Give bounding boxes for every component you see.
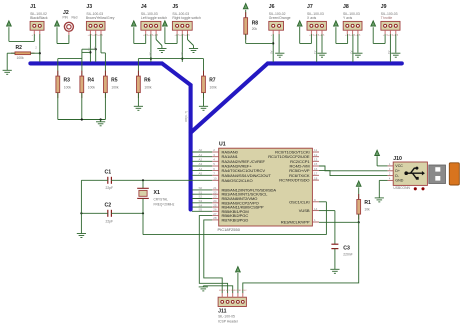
svg-text:A5: A5 xyxy=(199,172,203,176)
svg-text:22pF: 22pF xyxy=(106,220,114,224)
svg-text:28: 28 xyxy=(213,216,217,220)
svg-text:J3: J3 xyxy=(86,4,92,10)
svg-text:C1: C1 xyxy=(105,169,112,175)
svg-text:14: 14 xyxy=(314,207,318,211)
svg-text:R4: R4 xyxy=(88,77,95,83)
svg-text:100k: 100k xyxy=(88,86,96,90)
svg-text:A1: A1 xyxy=(199,153,203,157)
svg-text:R3: R3 xyxy=(64,77,71,83)
svg-text:+ -: + - xyxy=(32,34,36,37)
svg-text:Throttle: Throttle xyxy=(381,16,393,20)
svg-text:100k: 100k xyxy=(64,86,72,90)
svg-text:J6: J6 xyxy=(269,4,275,10)
svg-text:J4: J4 xyxy=(141,4,147,10)
svg-text:13: 13 xyxy=(314,158,318,162)
svg-text:16: 16 xyxy=(314,167,318,171)
svg-text:S1: S1 xyxy=(88,48,92,52)
svg-text:ICSP Header: ICSP Header xyxy=(218,320,239,324)
svg-text:A4: A4 xyxy=(199,167,203,171)
svg-text:FREQ=20MHz: FREQ=20MHz xyxy=(154,202,175,206)
svg-text:A3: A3 xyxy=(199,162,203,166)
svg-text:J1: J1 xyxy=(30,4,36,10)
svg-text:VUSB: VUSB xyxy=(299,208,310,213)
svg-text:11: 11 xyxy=(314,148,317,152)
svg-text:Red: Red xyxy=(72,15,78,19)
svg-text:R7: R7 xyxy=(209,77,216,83)
svg-text:S5: S5 xyxy=(199,208,203,212)
svg-text:MCLR VCC GND PGD PGC: MCLR VCC GND PGD PGC xyxy=(219,290,247,292)
svg-text:RB7/KBI3/PGD: RB7/KBI3/PGD xyxy=(222,217,249,222)
svg-text:10: 10 xyxy=(213,177,217,181)
svg-text:S4: S4 xyxy=(180,52,184,56)
svg-text:A0: A0 xyxy=(270,51,274,55)
svg-text:10k: 10k xyxy=(364,207,370,211)
svg-text:R2: R2 xyxy=(16,45,23,51)
svg-text:OSC1/CLKI: OSC1/CLKI xyxy=(289,199,309,204)
svg-text:U1: U1 xyxy=(219,142,226,148)
svg-text:Right toggle switch: Right toggle switch xyxy=(172,16,201,20)
svg-text:X1: X1 xyxy=(154,190,160,196)
svg-text:22pF: 22pF xyxy=(106,186,114,190)
svg-text:100k: 100k xyxy=(111,86,119,90)
svg-text:15: 15 xyxy=(314,162,318,166)
svg-text:100k: 100k xyxy=(17,56,25,60)
svg-text:Green/Orange: Green/Orange xyxy=(269,16,291,20)
svg-text:A2: A2 xyxy=(349,51,353,55)
svg-text:R1: R1 xyxy=(364,200,371,206)
svg-text:S2: S2 xyxy=(93,47,97,51)
svg-text:J7: J7 xyxy=(307,4,313,10)
svg-text:D+: D+ xyxy=(395,169,400,173)
svg-text:X axis: X axis xyxy=(307,16,317,20)
svg-text:220nF: 220nF xyxy=(343,252,352,256)
svg-text:C3: C3 xyxy=(343,245,350,251)
svg-text:RE3/MCLR/VPP: RE3/MCLR/VPP xyxy=(281,220,310,225)
svg-text:RB[0..7]: RB[0..7] xyxy=(184,111,188,122)
svg-text:SIL-100-05: SIL-100-05 xyxy=(218,315,235,319)
svg-text:PIC18F2550: PIC18F2550 xyxy=(218,227,241,232)
svg-text:J10: J10 xyxy=(393,156,402,162)
svg-text:A1: A1 xyxy=(313,51,317,55)
svg-text:Y axis: Y axis xyxy=(343,16,352,20)
svg-text:Brown/Yellow/Grey: Brown/Yellow/Grey xyxy=(86,16,115,20)
svg-text:20k: 20k xyxy=(252,27,258,31)
svg-text:PIN: PIN xyxy=(63,15,69,19)
svg-text:A2: A2 xyxy=(199,158,203,162)
svg-text:Left toggle switch: Left toggle switch xyxy=(141,16,167,20)
svg-text:Black/Black: Black/Black xyxy=(30,16,48,20)
svg-text:12: 12 xyxy=(314,153,318,157)
svg-text:C2: C2 xyxy=(105,203,112,209)
svg-text:J8: J8 xyxy=(343,4,349,10)
svg-text:17: 17 xyxy=(314,172,318,176)
svg-text:J9: J9 xyxy=(381,4,387,10)
svg-text:RA6/OSC2/CLKO: RA6/OSC2/CLKO xyxy=(222,178,253,183)
svg-text:R5: R5 xyxy=(111,77,118,83)
svg-text:VCC: VCC xyxy=(395,164,403,168)
svg-text:100k: 100k xyxy=(210,86,218,90)
svg-text:CRYSTAL: CRYSTAL xyxy=(154,198,169,202)
svg-text:S3: S3 xyxy=(148,52,152,56)
svg-text:R6: R6 xyxy=(144,77,151,83)
svg-text:R8: R8 xyxy=(252,20,259,26)
svg-text:RC7/RX/DT/SDO: RC7/RX/DT/SDO xyxy=(279,178,309,183)
svg-text:USBCONN: USBCONN xyxy=(393,186,410,190)
svg-text:18: 18 xyxy=(314,176,318,180)
svg-text:GND: GND xyxy=(395,179,403,183)
svg-text:A3: A3 xyxy=(387,51,391,55)
svg-text:100k: 100k xyxy=(144,86,152,90)
svg-text:J5: J5 xyxy=(172,4,178,10)
svg-text:A0: A0 xyxy=(199,148,203,152)
